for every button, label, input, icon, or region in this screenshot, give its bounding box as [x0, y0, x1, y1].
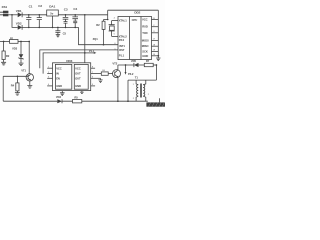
- wire VT2 collector: [118, 64, 134, 66]
- svg-text:C4: C4: [73, 7, 77, 11]
- resistor R5: [73, 95, 82, 103]
- DD2 pin XTAL2: [112, 33, 128, 38]
- node VD3 tap: [20, 41, 22, 43]
- svg-text:P3.2: P3.2: [128, 72, 134, 76]
- capacitor C4: [72, 7, 78, 28]
- ground at right connector: [156, 55, 160, 61]
- resistor R4 with ground: [11, 75, 20, 95]
- svg-text:C1: C1: [29, 5, 33, 9]
- svg-text:TXD: TXD: [142, 31, 147, 35]
- connector to line (dark block): [146, 98, 165, 107]
- svg-text:DD3: DD3: [66, 59, 72, 63]
- DD2 pin INT1: [114, 43, 125, 48]
- svg-text:R2: R2: [6, 54, 10, 58]
- svg-text:VD2: VD2: [16, 22, 22, 26]
- wire VT1 base from left: [3, 75, 28, 77]
- transformer T1: [133, 75, 150, 101]
- wire 0V drop to DD2: [79, 27, 119, 44]
- svg-text:VD4: VD4: [56, 95, 62, 99]
- svg-text:C5: C5: [63, 32, 67, 36]
- crystal ZQ1: [93, 21, 115, 41]
- transistor VT1: [21, 42, 33, 89]
- capacitor C2: [37, 4, 43, 28]
- svg-text:MOSI: MOSI: [142, 39, 149, 43]
- wire left corner to bottom rail: [2, 76, 4, 101]
- wire +5V rail: [58, 10, 158, 15]
- svg-text:VCC: VCC: [142, 18, 148, 22]
- diode VD2: [16, 22, 22, 30]
- resistor R7: [144, 59, 156, 66]
- svg-text:VCC: VCC: [56, 66, 62, 70]
- svg-text:C2: C2: [38, 4, 42, 8]
- DD3 left pins: [47, 66, 52, 86]
- resistor R2a left with ground: [1, 41, 10, 65]
- svg-text:DD2: DD2: [134, 11, 140, 15]
- resistor R2 pullup: [96, 15, 108, 46]
- DD2 right pins: [142, 18, 159, 58]
- wire B1 to RST: [40, 50, 118, 68]
- zener VD3 with ground: [12, 42, 24, 66]
- svg-text:R2: R2: [96, 23, 100, 27]
- resistor R6: [101, 70, 112, 76]
- bottom rail: [3, 100, 148, 102]
- svg-text:GND: GND: [56, 84, 62, 88]
- resistor R1: [0, 36, 29, 43]
- svg-text:EN: EN: [56, 76, 60, 80]
- ground for DD3 out row3: [98, 78, 102, 82]
- wire B2: [43, 53, 85, 74]
- DD2 pin XTAL1: [112, 17, 128, 22]
- DD3 bottom ground: [60, 91, 65, 96]
- DD3 right pins: [91, 66, 102, 86]
- svg-text:DA1: DA1: [49, 5, 55, 9]
- svg-text:VT1: VT1: [21, 68, 26, 72]
- net label P3.2: [125, 64, 134, 76]
- capacitor C3: [63, 8, 69, 29]
- DD2 pin RST: [114, 48, 124, 58]
- node VT2 emitter on rail: [117, 100, 119, 102]
- module DD3: [53, 59, 91, 91]
- DD3 second bottom ground: [80, 91, 83, 94]
- voltage regulator DA1: [47, 5, 59, 29]
- svg-text:VD5: VD5: [131, 59, 137, 63]
- svg-text:P3.0: P3.0: [119, 38, 125, 42]
- svg-text:CPU: CPU: [132, 18, 138, 22]
- wire down to transformer: [156, 64, 158, 66]
- svg-text:OUT: OUT: [75, 71, 81, 75]
- node VT1 collector tap: [28, 41, 30, 43]
- diode VD4: [56, 95, 62, 103]
- svg-text:P1.1: P1.1: [119, 54, 125, 58]
- svg-text:IN: IN: [56, 71, 59, 75]
- svg-text:INT1: INT1: [119, 44, 125, 48]
- svg-text:R4: R4: [11, 83, 15, 87]
- diode VD1: [12, 9, 22, 17]
- transistor VT2: [112, 62, 120, 102]
- svg-text:GND: GND: [142, 54, 148, 58]
- svg-text:GND: GND: [75, 84, 81, 88]
- svg-text:XTAL1: XTAL1: [119, 19, 128, 23]
- svg-text:VD3: VD3: [12, 47, 18, 51]
- microcontroller DD2: [118, 11, 152, 60]
- svg-text:R5: R5: [74, 95, 78, 99]
- svg-text:C3: C3: [64, 8, 68, 12]
- svg-text:XTAL2: XTAL2: [119, 34, 128, 38]
- net label P1.1: [84, 49, 96, 54]
- diode VD5: [131, 59, 144, 67]
- capacitor C5 with ground: [55, 27, 66, 37]
- wire 0V rail: [22, 26, 78, 28]
- node after XS1: [11, 14, 13, 16]
- svg-text:VD1: VD1: [16, 9, 22, 13]
- svg-text:RXD: RXD: [142, 25, 148, 29]
- wire + rail: [22, 14, 47, 16]
- svg-text:MISO: MISO: [142, 44, 150, 48]
- svg-text:R7: R7: [146, 59, 150, 63]
- svg-text:VCC: VCC: [75, 66, 81, 70]
- svg-text:XS1: XS1: [2, 5, 8, 9]
- connector bus right edge: [157, 10, 159, 56]
- svg-text:OUT: OUT: [75, 76, 81, 80]
- connector XS1: [0, 5, 12, 16]
- svg-text:VT2: VT2: [112, 62, 117, 66]
- svg-text:ZQ1: ZQ1: [93, 37, 99, 41]
- svg-text:SCK: SCK: [142, 50, 148, 54]
- capacitor C1: [26, 5, 33, 29]
- wire +5 drop to DD3: [84, 14, 86, 16]
- wire down to VD2 branch: [12, 15, 18, 28]
- svg-text:P1.1: P1.1: [89, 49, 95, 53]
- svg-text:RST: RST: [119, 48, 125, 52]
